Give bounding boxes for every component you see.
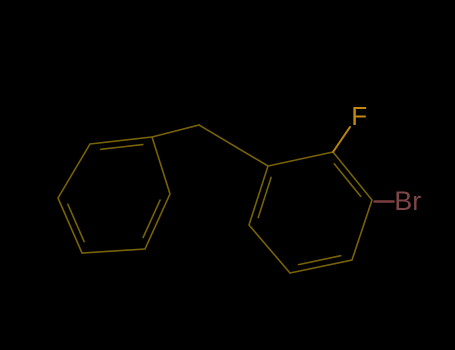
- left benzene ring outline: [58, 137, 170, 253]
- left ring double bond 2 (right-lower edge inner line): [143, 200, 160, 237]
- right ring double bond 3 (left edge inner line): [258, 177, 271, 217]
- C-F bond: [333, 127, 350, 152]
- C-Br bond: [375, 200, 394, 203]
- svg-text:F: F: [351, 101, 367, 131]
- svg-text:Br: Br: [394, 186, 421, 216]
- left ring double bond 1 (top edge inner line): [101, 145, 143, 150]
- right ring double bond 2 (bottom edge inner line): [299, 256, 341, 265]
- right ring double bond 1 (F-C to Br-C edge inner line): [334, 164, 361, 197]
- right benzene ring outline: [249, 152, 372, 273]
- bridge bond a (ring to apex): [152, 125, 199, 137]
- bridge bond b (apex to right ring): [199, 125, 268, 166]
- left ring double bond 3 (left-lower edge inner line): [68, 204, 84, 241]
